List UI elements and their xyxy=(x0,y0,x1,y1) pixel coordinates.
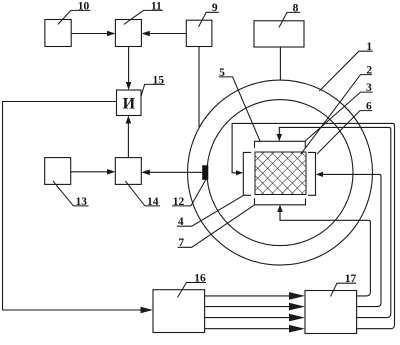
label 11 leader xyxy=(124,10,163,24)
svg-text:8: 8 xyxy=(293,2,299,14)
block 11 xyxy=(115,20,141,47)
arrow into left bracket xyxy=(236,170,243,175)
wire 16 to 17 line1 xyxy=(205,295,290,297)
label 14 leader xyxy=(125,181,160,206)
left electrode bracket 4 xyxy=(243,152,251,195)
arrow into 14 right xyxy=(141,170,150,176)
label 16 leader xyxy=(178,283,207,298)
arrow into 11 right xyxy=(141,31,149,37)
label 6 leader xyxy=(317,111,372,154)
label 13 leader xyxy=(53,181,89,206)
svg-text:9: 9 xyxy=(212,2,218,14)
label 4 leader xyxy=(177,195,243,226)
outer circle 1 xyxy=(188,80,373,265)
wire 17 to bottom plate xyxy=(280,212,370,296)
svg-text:11: 11 xyxy=(151,0,162,12)
arrow into top plate xyxy=(277,134,283,141)
block 10 xyxy=(45,20,71,47)
wire 11 down to 15 xyxy=(128,47,130,84)
arrow into bottom plate xyxy=(277,205,283,212)
right electrode bracket xyxy=(308,152,316,195)
svg-text:17: 17 xyxy=(345,273,357,285)
inner circle 6 xyxy=(207,100,353,246)
bottom plate 7 xyxy=(255,198,306,205)
svg-text:6: 6 xyxy=(366,101,372,113)
wire 9 to 11 xyxy=(150,33,187,35)
svg-text:1: 1 xyxy=(366,41,372,53)
wire 14 up to 15 xyxy=(127,122,129,158)
label 3 leader xyxy=(305,92,372,141)
block 13 xyxy=(45,158,71,185)
svg-text:16: 16 xyxy=(194,272,206,284)
arrow into 15 top xyxy=(126,82,132,90)
svg-text:4: 4 xyxy=(178,216,184,228)
label 1 leader xyxy=(319,51,372,91)
arrow into 16 left xyxy=(141,307,154,314)
label 2 leader xyxy=(301,75,372,155)
arrow into right bracket xyxy=(316,172,323,177)
top plate 3 xyxy=(255,141,306,148)
arrow into 17 line4 xyxy=(289,325,305,333)
wire 9 down to chamber xyxy=(198,47,200,128)
wire 17 to top plate xyxy=(279,127,391,317)
arrow into 14 left xyxy=(107,169,115,175)
arrow into 15 bottom xyxy=(126,116,132,124)
block 16 xyxy=(153,290,205,333)
label 5 leader xyxy=(219,77,260,141)
hatched core 2 xyxy=(255,152,306,195)
wire 16 to 17 line3 xyxy=(205,317,290,319)
svg-text:13: 13 xyxy=(76,196,88,208)
arrow into 17 line2 xyxy=(289,303,305,311)
svg-text:7: 7 xyxy=(178,237,184,249)
svg-text:14: 14 xyxy=(147,196,159,208)
label 8 leader xyxy=(279,12,300,27)
svg-text:12: 12 xyxy=(173,196,185,208)
block 17 xyxy=(305,291,357,334)
wire 12 to 14 xyxy=(150,171,203,173)
wire 16 to 17 line2 xyxy=(205,306,290,308)
label 9 leader xyxy=(199,12,219,27)
block 9 xyxy=(186,20,212,46)
wire 17 to right bracket xyxy=(322,174,382,306)
svg-text:3: 3 xyxy=(366,82,372,94)
block 14 xyxy=(115,158,141,185)
wire 17 to left bracket xyxy=(232,123,394,328)
svg-text:5: 5 xyxy=(219,67,225,79)
label 12 leader xyxy=(172,180,206,206)
arrow into 17 line3 xyxy=(289,314,305,322)
arrow into 11 left xyxy=(107,31,115,37)
svg-text:2: 2 xyxy=(366,65,372,77)
label 10 leader xyxy=(58,10,91,24)
arrow into 17 line1 xyxy=(289,292,305,300)
label 7 leader xyxy=(178,205,255,247)
label 15 leader xyxy=(141,84,165,96)
svg-text:15: 15 xyxy=(153,74,165,86)
sensor 12 black block xyxy=(202,165,208,180)
svg-text:10: 10 xyxy=(78,0,90,12)
label 17 leader xyxy=(331,283,357,296)
feedback wire 15 to 16 xyxy=(3,102,144,311)
block 8 xyxy=(254,21,304,47)
wire 8 down to chamber xyxy=(279,47,281,80)
wire 10 to 11 xyxy=(71,33,108,35)
wire 16 to 17 line4 xyxy=(205,328,290,330)
wire 13 to 14 xyxy=(71,171,109,173)
svg-text:И: И xyxy=(123,96,136,113)
block 15 AND-gate xyxy=(117,90,142,116)
